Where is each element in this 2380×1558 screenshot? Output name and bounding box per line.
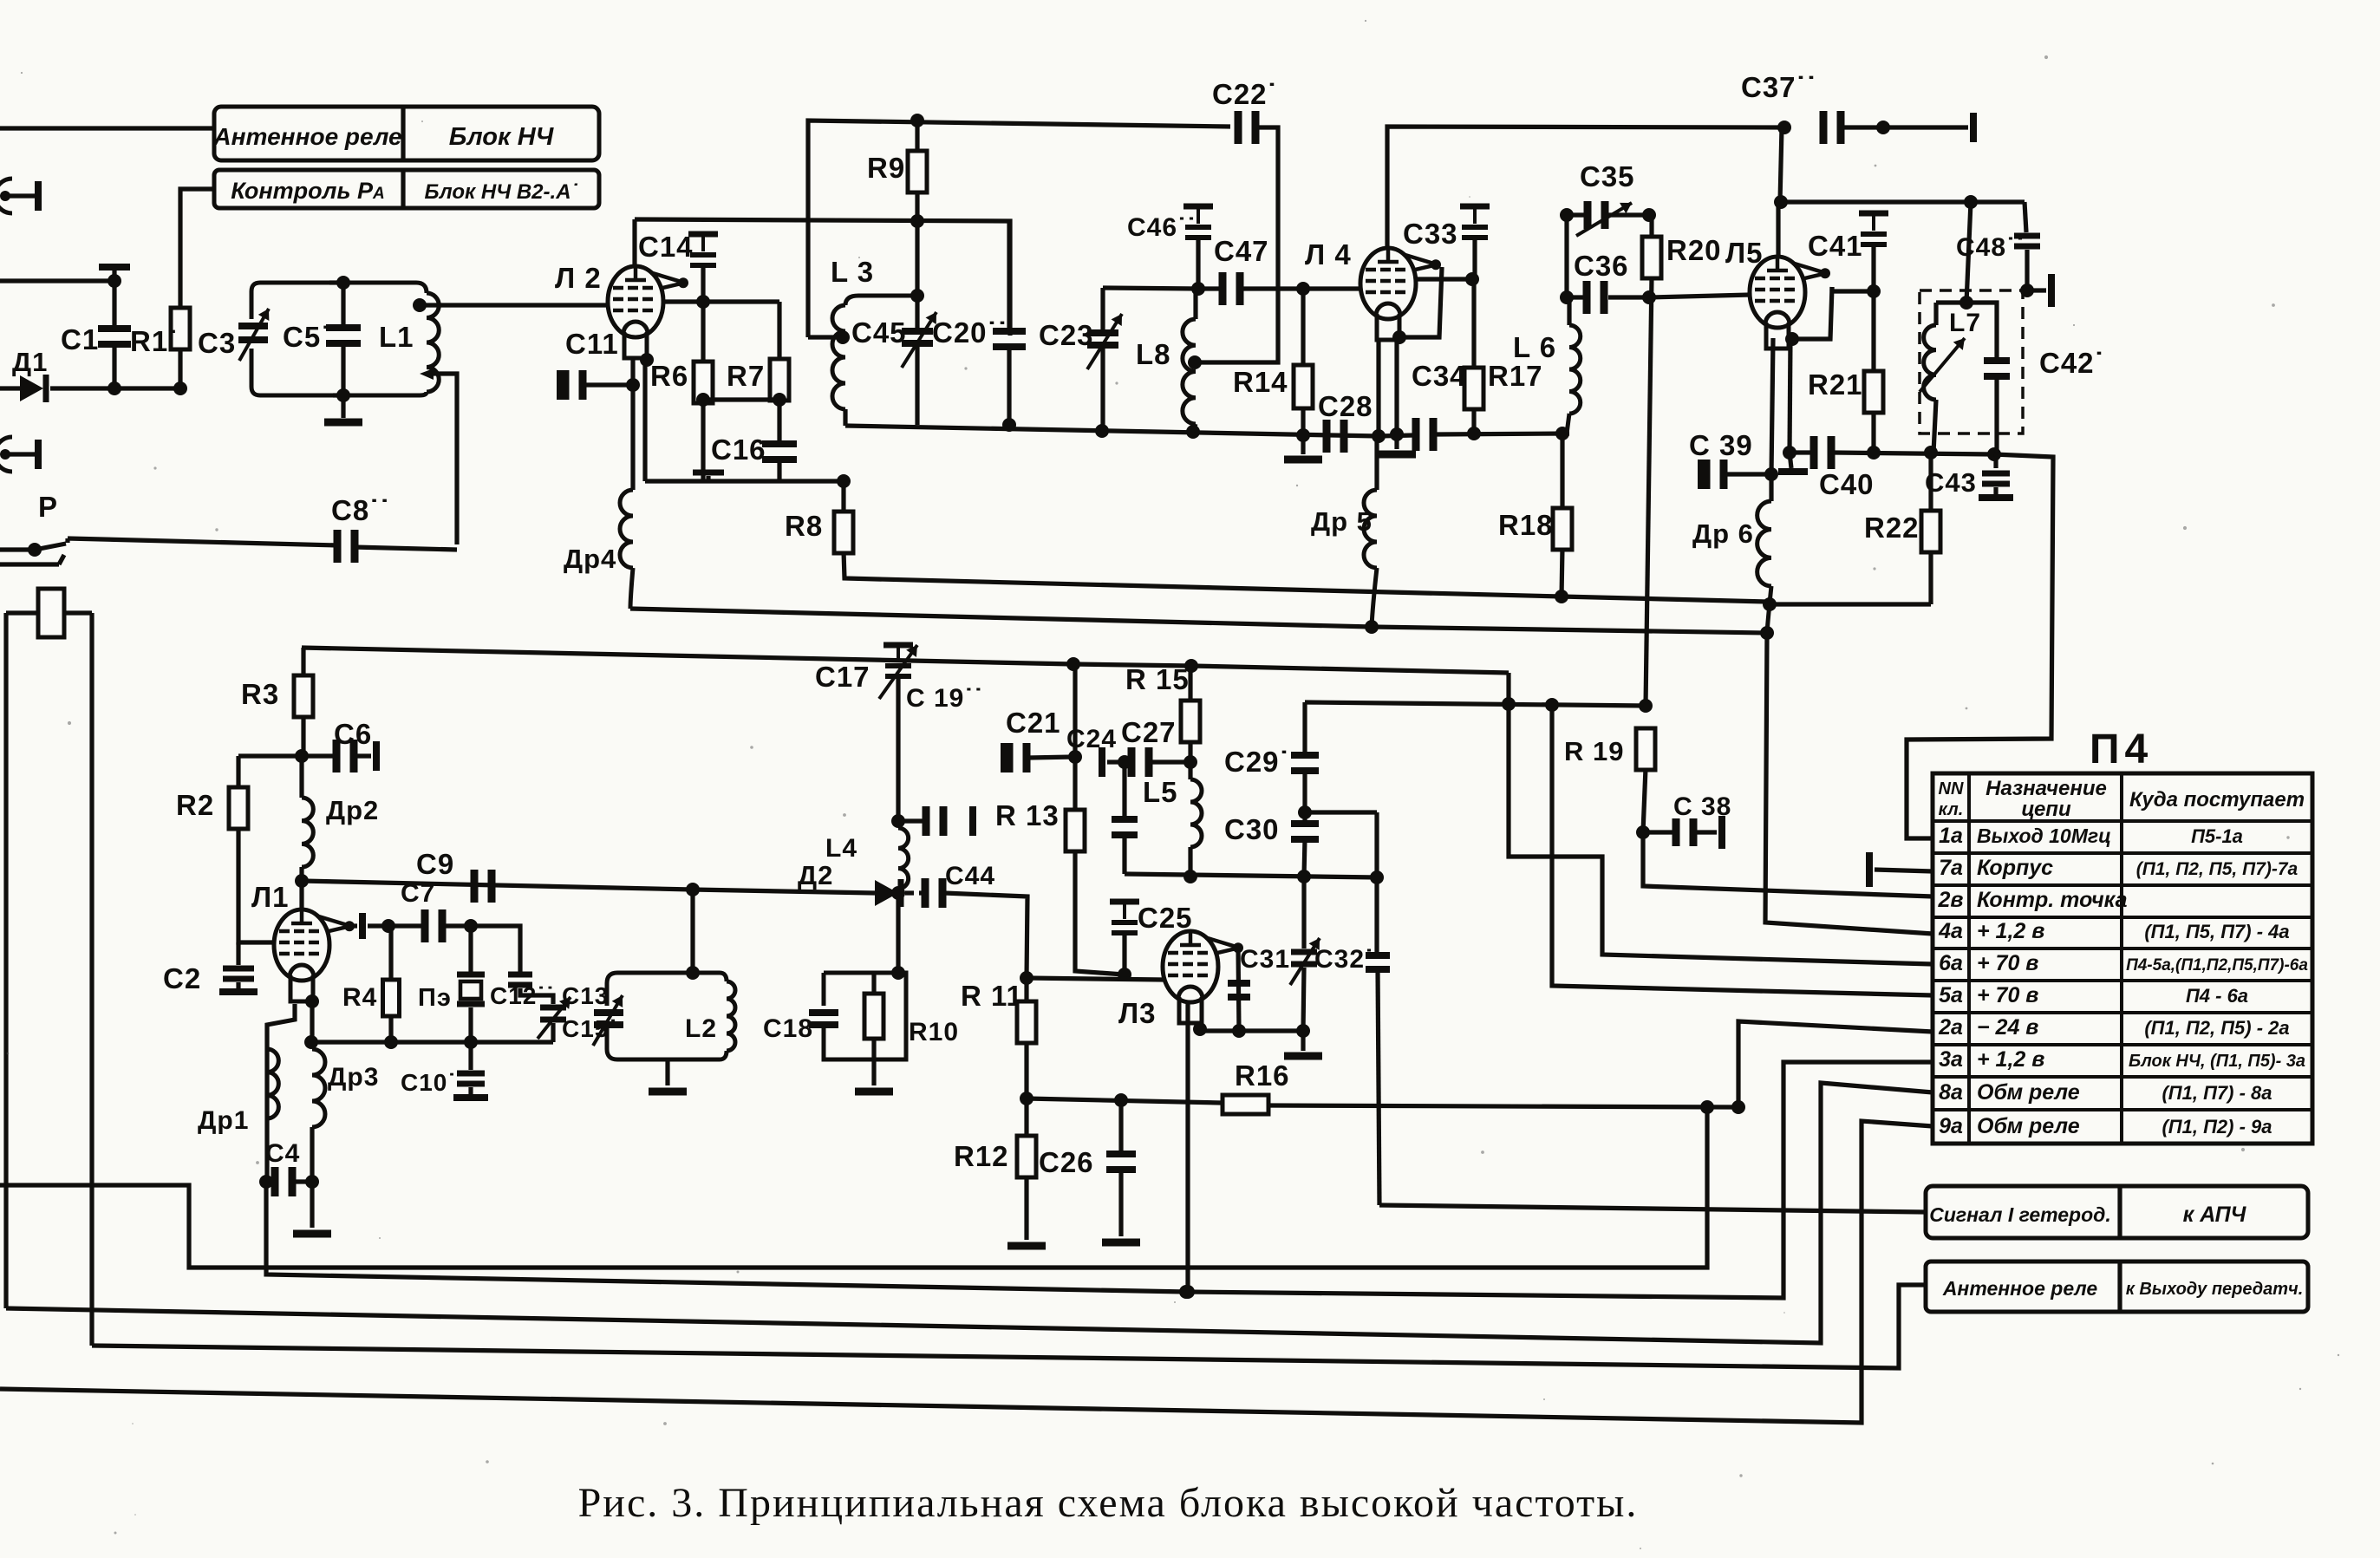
wire 6a row — [1509, 673, 1933, 964]
svg-text:C25: C25 — [1138, 902, 1193, 934]
svg-text:R7: R7 — [727, 360, 765, 392]
svg-text:L 3: L 3 — [831, 256, 874, 288]
L1 bottom tap — [420, 368, 434, 380]
wire Л3 grid — [1027, 978, 1164, 980]
svg-text:П5-1а: П5-1а — [2191, 825, 2243, 847]
svg-text:C2: C2 — [163, 962, 201, 994]
svg-text:цепи: цепи — [2021, 798, 2071, 821]
svg-text:Др3: Др3 — [328, 1063, 379, 1092]
svg-text:П4-5а,(П1,П2,П5,П7)-6а: П4-5а,(П1,П2,П5,П7)-6а — [2126, 956, 2308, 975]
svg-text:C23: C23 — [1039, 319, 1094, 351]
svg-text:C24: C24 — [1066, 725, 1117, 753]
svg-text:C45: C45 — [851, 316, 907, 349]
svg-text:Назначение: Назначение — [1986, 777, 2107, 800]
wire Л1 grid — [238, 828, 274, 942]
svg-text:Др4: Др4 — [564, 544, 616, 574]
wire 2a row — [1738, 1021, 1933, 1107]
ground stub near R6 — [706, 476, 710, 481]
svg-text:П4 - 6а: П4 - 6а — [2186, 985, 2248, 1007]
dashes between L4 and C44 — [905, 890, 914, 895]
terminal 7a — [1866, 852, 1873, 887]
ground under C32 — [1301, 1031, 1305, 1051]
wire -24V row (R16) — [1027, 1098, 1221, 1103]
ground under C5 — [341, 395, 345, 418]
svg-text:C40: C40 — [1819, 468, 1875, 500]
+70V rail from R3 to R13/R15 and 6a — [302, 648, 1509, 673]
neutralization line via C22 — [808, 121, 1230, 337]
svg-text:C22˙: C22˙ — [1212, 78, 1278, 110]
C24 vertical — [1122, 762, 1126, 818]
wire C9 line — [302, 881, 875, 893]
Л3 beak to C31 — [1238, 947, 1239, 1031]
svg-text:Контр. точка: Контр. точка — [1977, 888, 2128, 912]
svg-text:L 6: L 6 — [1513, 331, 1556, 363]
svg-text:R 13: R 13 — [995, 799, 1060, 831]
svg-text:C1: C1 — [61, 323, 99, 355]
wire Л1 plate lead — [299, 881, 303, 909]
svg-text:C30: C30 — [1224, 813, 1280, 845]
svg-text:+ 70 в: + 70 в — [1977, 951, 2038, 975]
svg-text:2а: 2а — [1938, 1015, 1963, 1040]
wire R6-R7 bottom — [703, 397, 779, 401]
wire R4/Пэ/C13 bottom row — [311, 1040, 553, 1044]
svg-text:C36: C36 — [1574, 250, 1629, 282]
svg-text:R12: R12 — [954, 1140, 1009, 1172]
tank box L1/C5 — [251, 283, 333, 395]
capacitor C40 — [1810, 436, 1818, 469]
svg-text:R6: R6 — [650, 360, 688, 392]
svg-text:R14: R14 — [1233, 366, 1288, 398]
svg-text:Л 4: Л 4 — [1305, 238, 1352, 271]
wire y500 C34 row — [1379, 435, 1413, 436]
ground stub under Л5 grid node — [1790, 453, 1791, 468]
svg-text:C8˙˙: C8˙˙ — [331, 494, 390, 526]
svg-text:C31: C31 — [1240, 945, 1290, 974]
svg-text:(П1, П2) - 9а: (П1, П2) - 9а — [2162, 1116, 2272, 1138]
cathode rail Др4-Др5-Др6 — [630, 609, 1767, 633]
svg-text:8а: 8а — [1939, 1080, 1963, 1105]
Л3 heater lead down — [1185, 1003, 1190, 1292]
svg-text:+ 70 в: + 70 в — [1977, 983, 2038, 1007]
svg-text:NN: NN — [1939, 779, 1964, 799]
box C18/R10 — [824, 973, 906, 1059]
svg-text:2в: 2в — [1937, 888, 1963, 912]
svg-text:кл.: кл. — [1939, 800, 1964, 819]
Л3 cathode wire — [1200, 1028, 1303, 1033]
svg-text:Р: Р — [38, 491, 58, 523]
svg-text:R20: R20 — [1666, 234, 1722, 266]
tap C29/C30 to oscillator output — [1305, 810, 1377, 814]
plate rail y253 — [635, 219, 1010, 336]
svg-text:L1: L1 — [379, 321, 414, 353]
svg-text:C17: C17 — [815, 661, 870, 693]
svg-text:Корпус: Корпус — [1977, 856, 2053, 880]
ground under L2 box — [665, 1059, 669, 1085]
svg-text:R8: R8 — [785, 510, 823, 542]
wire tank bottom y1008 — [1125, 874, 1377, 877]
wire y522 row (C40) — [1790, 450, 1811, 454]
wire box top to C9 line — [690, 890, 694, 973]
ground under Др3/C4 — [310, 1182, 314, 1228]
wire R3 bottom — [301, 715, 305, 756]
svg-text:Выход 10Мгц: Выход 10Мгц — [1977, 825, 2111, 847]
plate rail y233 — [1781, 199, 2025, 204]
svg-text:Рис. 3. Принципиальная схема б: Рис. 3. Принципиальная схема блока высок… — [578, 1480, 1639, 1526]
box Сигнал I гетерод / к АПЧ — [1926, 1186, 2308, 1238]
ground under R10 box — [871, 1059, 876, 1085]
Л1 cathode leads — [267, 1004, 295, 1182]
Л5 beak wire — [1829, 287, 1834, 291]
svg-text:L5: L5 — [1143, 776, 1178, 808]
svg-text:C26: C26 — [1039, 1146, 1094, 1178]
svg-text:R 19: R 19 — [1564, 736, 1624, 766]
bus to Antenna relay box — [92, 1285, 1926, 1368]
svg-text:C34: C34 — [1412, 360, 1467, 392]
wire Л2 plate to rail — [632, 219, 636, 266]
svg-text:L2: L2 — [685, 1014, 717, 1043]
svg-text:C29˙: C29˙ — [1224, 746, 1290, 778]
svg-text:C11: C11 — [565, 328, 619, 360]
svg-text:R10: R10 — [909, 1018, 959, 1046]
wire Л5 plate lead — [1776, 202, 1780, 257]
svg-text:Обм реле: Обм реле — [1977, 1080, 2080, 1105]
wire C37 down to Л5 plate — [1780, 127, 1782, 202]
svg-text:C28: C28 — [1318, 390, 1373, 422]
svg-text:R 15: R 15 — [1125, 663, 1190, 695]
svg-text:(П1, П7) - 8а: (П1, П7) - 8а — [2162, 1082, 2272, 1104]
svg-text:Антенное реле: Антенное реле — [1942, 1277, 2098, 1300]
wire R19 top row — [1305, 702, 1646, 706]
svg-text:C35: C35 — [1580, 160, 1635, 192]
svg-text:C 39: C 39 — [1689, 429, 1753, 461]
wire 4a from cathode rail — [1765, 633, 1933, 934]
dashed box L7/C42 — [1920, 290, 2023, 434]
svg-text:C 19˙˙: C 19˙˙ — [906, 684, 983, 713]
svg-text:Л5: Л5 — [1725, 237, 1764, 269]
wire 5a row — [1552, 705, 1933, 995]
svg-text:9а: 9а — [1939, 1114, 1963, 1138]
svg-text:7а: 7а — [1939, 856, 1963, 880]
Л5 cathode lead down — [1771, 338, 1773, 474]
wire Л5 grid — [1649, 295, 1751, 297]
svg-text:C37˙˙: C37˙˙ — [1741, 71, 1817, 103]
left loop vertical 2 — [89, 613, 94, 1346]
svg-text:Блок НЧ В2-.А˙: Блок НЧ В2-.А˙ — [424, 180, 577, 204]
svg-text:C47: C47 — [1214, 235, 1269, 267]
svg-text:R1˙: R1˙ — [130, 325, 179, 357]
svg-text:C21: C21 — [1006, 707, 1061, 739]
svg-text:R22: R22 — [1864, 512, 1920, 544]
svg-text:C43: C43 — [1925, 467, 1977, 498]
svg-text:(П1, П2, П5, П7)-7а: (П1, П2, П5, П7)-7а — [2136, 859, 2298, 879]
svg-text:Обм реле: Обм реле — [1977, 1114, 2080, 1138]
svg-text:5а: 5а — [1939, 983, 1963, 1007]
svg-text:П4: П4 — [2090, 727, 2153, 772]
svg-text:C9: C9 — [416, 848, 454, 880]
svg-text:C4: C4 — [265, 1139, 300, 1168]
L1 top tap to Л2 grid — [413, 298, 427, 312]
wire C7 line — [368, 923, 421, 928]
bus A: C4 to 3a row — [266, 1062, 1933, 1298]
wire R1 bottom lead — [178, 348, 182, 388]
Л4 plate line to C37 — [1387, 127, 1782, 249]
svg-text:1а: 1а — [1939, 824, 1963, 848]
svg-text:Антенное реле: Антенное реле — [212, 123, 401, 150]
svg-text:Л3: Л3 — [1118, 997, 1157, 1029]
svg-text:C33: C33 — [1403, 218, 1458, 250]
bus to 8a row — [6, 1083, 1933, 1343]
svg-text:C32˙: C32˙ — [1314, 945, 1374, 974]
svg-text:3а: 3а — [1939, 1047, 1963, 1072]
wire L4 node to box — [896, 893, 900, 973]
wire Л4 grid — [1416, 277, 1472, 281]
wire antenna node — [50, 386, 180, 390]
wire top node C1 — [0, 278, 114, 283]
bus to 9a row — [0, 1121, 1933, 1423]
long vertical R20 to R19 — [1646, 277, 1652, 706]
svg-text:C3: C3 — [198, 327, 236, 359]
svg-text:Др 6: Др 6 — [1692, 518, 1754, 549]
svg-text:R2: R2 — [176, 789, 214, 821]
connector jack 2 left — [0, 437, 12, 472]
svg-text:C41: C41 — [1808, 230, 1863, 262]
svg-text:Сигнал I гетерод.: Сигнал I гетерод. — [1929, 1203, 2111, 1226]
svg-text:C14: C14 — [638, 231, 694, 263]
connector jack top left — [0, 179, 12, 213]
svg-text:R4: R4 — [342, 983, 377, 1012]
chassis stub above C1 — [112, 269, 116, 281]
svg-text:R17: R17 — [1488, 360, 1543, 392]
resistor R1 — [171, 308, 190, 349]
svg-text:Д1: Д1 — [12, 347, 48, 377]
svg-text:Д2: Д2 — [798, 860, 833, 890]
svg-text:Куда поступает: Куда поступает — [2129, 788, 2305, 812]
wire Др6 to R22 bottom — [1770, 602, 1931, 606]
wire R19 to 2v row — [1643, 832, 1933, 896]
svg-text:C42˙: C42˙ — [2039, 347, 2105, 379]
svg-text:Блок НЧ, (П1, П5)- 3а: Блок НЧ, (П1, П5)- 3а — [2129, 1052, 2305, 1071]
svg-text:R16: R16 — [1235, 1059, 1290, 1092]
svg-text:L8: L8 — [1136, 338, 1171, 370]
svg-text:Пэ: Пэ — [418, 984, 452, 1012]
svg-text:к АПЧ: к АПЧ — [2183, 1203, 2247, 1227]
wire C43 node to 1a row — [1907, 454, 2053, 838]
svg-text:(П1, П5, П7) - 4а: (П1, П5, П7) - 4а — [2144, 921, 2289, 942]
svg-text:L7: L7 — [1949, 309, 1981, 337]
Л5 suppressor loop — [1792, 287, 1832, 339]
wire from Контроль box to R1 — [180, 189, 214, 308]
svg-text:Блок НЧ: Блок НЧ — [449, 123, 555, 151]
Сигнал output wire — [1379, 1205, 1926, 1212]
svg-text:C27: C27 — [1121, 716, 1177, 748]
svg-text:R3: R3 — [241, 678, 279, 710]
wire cathode bottom Л2 — [645, 479, 844, 483]
svg-text:Л1: Л1 — [251, 881, 290, 913]
label box: Контроль Ра / Блок НЧ В2-А — [214, 170, 599, 208]
svg-text:C44: C44 — [945, 862, 995, 890]
tank bottom wire — [845, 426, 1379, 436]
svg-text:Др2: Др2 — [326, 795, 379, 825]
label box: Антенное реле / Блок НЧ — [214, 107, 599, 160]
svg-text:6а: 6а — [1939, 951, 1963, 975]
bus -24V — [0, 1107, 1707, 1268]
ground under R14 — [1301, 435, 1305, 454]
box L2/C15 — [607, 973, 720, 1059]
svg-text:R18: R18 — [1498, 509, 1554, 541]
Л4 suppressor to ground — [1399, 267, 1442, 337]
left loop vertical 1 — [3, 613, 8, 1308]
Л1 beak terminal — [350, 923, 357, 928]
Л4 cathode lead — [1376, 340, 1380, 434]
capacitor C32 fixed — [1366, 952, 1390, 959]
svg-text:C7˙˙: C7˙˙ — [401, 879, 454, 908]
wire rail to L7 node — [1966, 202, 1971, 303]
svg-text:(П1, П2, П5) - 2а: (П1, П2, П5) - 2а — [2144, 1017, 2289, 1039]
svg-text:4а: 4а — [1938, 919, 1963, 943]
svg-text:C18: C18 — [763, 1014, 813, 1043]
svg-text:+ 1,2 в: + 1,2 в — [1977, 919, 2044, 943]
rail R8 to R18 — [844, 551, 1767, 602]
Л2 beak to R7 wire — [663, 299, 779, 303]
svg-text:R 11: R 11 — [961, 980, 1023, 1012]
svg-text:− 24 в: − 24 в — [1977, 1015, 2038, 1040]
relay coil box — [38, 589, 64, 637]
svg-text:Др1: Др1 — [198, 1106, 249, 1135]
svg-text:Контроль РА: Контроль РА — [231, 178, 384, 204]
box Антенное реле / к Выходу передатч — [1926, 1261, 2308, 1312]
svg-text:L4: L4 — [825, 834, 857, 863]
wire: left edge to relay box1 — [0, 126, 214, 130]
svg-text:C10˙: C10˙ — [401, 1069, 457, 1096]
svg-text:C16: C16 — [711, 434, 766, 466]
svg-text:к Выходу передатч.: к Выходу передатч. — [2126, 1280, 2304, 1299]
svg-text:+ 1,2 в: + 1,2 в — [1977, 1047, 2044, 1072]
svg-text:Л 2: Л 2 — [555, 262, 602, 294]
